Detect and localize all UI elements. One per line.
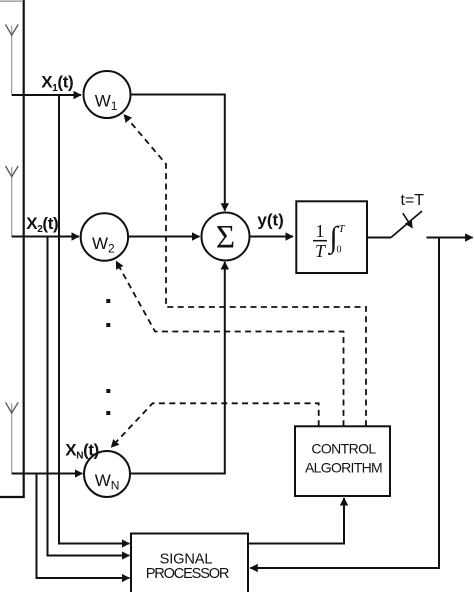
svg-text:T: T bbox=[315, 241, 327, 261]
svg-text:0: 0 bbox=[337, 245, 342, 256]
svg-text:PROCESSOR: PROCESSOR bbox=[146, 566, 229, 582]
svg-text:ALGORITHM: ALGORITHM bbox=[305, 459, 382, 475]
svg-text:y(t): y(t) bbox=[257, 210, 283, 229]
svg-text:W1: W1 bbox=[95, 92, 118, 114]
svg-text:CONTROL: CONTROL bbox=[311, 440, 376, 456]
svg-text:Σ: Σ bbox=[216, 220, 235, 256]
svg-text:T: T bbox=[338, 223, 345, 235]
svg-text:1: 1 bbox=[316, 221, 325, 241]
svg-text:X2(t): X2(t) bbox=[26, 214, 58, 235]
svg-text:SIGNAL: SIGNAL bbox=[160, 551, 213, 567]
svg-text:t=T: t=T bbox=[401, 192, 425, 209]
svg-text:WN: WN bbox=[95, 471, 120, 493]
svg-text:XN(t): XN(t) bbox=[65, 440, 99, 461]
svg-text:W2: W2 bbox=[92, 234, 115, 256]
svg-text:X1(t): X1(t) bbox=[41, 73, 73, 94]
